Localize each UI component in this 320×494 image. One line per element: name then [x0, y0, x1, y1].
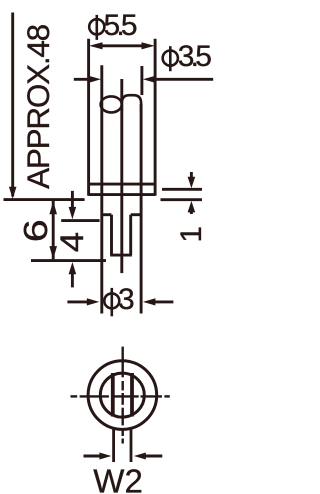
- bottom view: right pin (end-on): [130, 373, 134, 417]
- leader: phi3.5 left arrow: [74, 78, 91, 81]
- dimension line: phi5.5 across top: [96, 44, 148, 47]
- leader: phi3.5 right arrow: [152, 78, 213, 81]
- bottom view: left lead below flange: [112, 429, 115, 462]
- body outline: outer cylinder left edge (phi5.5): [87, 39, 90, 196]
- arrowhead: phi3 left pointing right: [87, 298, 100, 305]
- wire: center lead through body: [120, 79, 123, 273]
- centerline: vertical (dash-dot): [121, 347, 123, 444]
- arrowhead: phi5.5 left, pointing left: [89, 42, 102, 49]
- svg-text:6: 6: [17, 219, 54, 242]
- body outline: flange seam (top edge of base): [89, 183, 156, 186]
- body outline: outer cylinder right edge (phi5.5): [154, 39, 157, 196]
- arrowhead: W2 right pointing left: [134, 453, 146, 460]
- arrowhead: 4mm bottom arrow pointing up, with stem: [69, 262, 77, 274]
- bottom view: inner circle (body): [100, 373, 144, 417]
- arrowhead: 1mm upper arrow pointing down: [190, 172, 193, 178]
- bottom view: left pin (end-on): [111, 373, 115, 417]
- body outline: narrow stem right edge: [129, 215, 132, 255]
- body outline: step shoulder below neck: [102, 213, 112, 216]
- arrowhead: 6mm top pointing up: [49, 201, 57, 214]
- arrowhead: 6mm bottom pointing down: [49, 246, 57, 259]
- arrowhead: phi3.5 left, pointing right: [89, 76, 102, 83]
- svg-text:APPROX.48: APPROX.48: [20, 24, 56, 189]
- node: reference line at base of body (left side): [4, 198, 85, 201]
- centerline: horizontal (dash-dot): [71, 395, 170, 397]
- arrowhead: 1mm lower arrow pointing up: [188, 201, 196, 213]
- svg-text:3.5: 3.5: [178, 40, 211, 73]
- leader: W2 right arrow: [143, 455, 162, 458]
- body outline: flange bottom edge: [89, 193, 156, 196]
- node: tick lines for 1mm base thickness (right side): [162, 188, 202, 191]
- svg-text:4: 4: [55, 232, 91, 252]
- svg-text:1: 1: [175, 226, 208, 242]
- leader: W2 left arrow: [84, 455, 103, 458]
- body outline: stem bottom cap: [110, 254, 132, 257]
- node: lower reference line (bottom of 6mm / 4mm): [31, 259, 106, 262]
- arrowhead: W2 left pointing right: [99, 453, 111, 460]
- arrowhead: phi3 right pointing left: [143, 298, 156, 305]
- svg-text:3: 3: [118, 283, 134, 316]
- bottom view: outer circle (flange): [88, 361, 157, 430]
- arrowhead: APPROX.48 dimension, pointing down: [9, 187, 17, 199]
- leader: phi3 left arrow: [67, 300, 90, 303]
- body outline: inner tube left edge (phi3.5 / phi3 extension): [100, 65, 103, 313]
- svg-text:5.5: 5.5: [104, 9, 137, 42]
- element: wire loop arch at tube top: [122, 95, 141, 111]
- node: tick line for 4mm (upper): [61, 219, 99, 222]
- leader: phi3 right arrow: [152, 300, 173, 303]
- body outline: inner tube right edge stub (phi3.5): [140, 66, 143, 95]
- body outline: narrow stem left edge: [110, 215, 113, 255]
- arrowhead: phi5.5 right, pointing right: [142, 42, 155, 49]
- label: phi symbol of phi5.5: [89, 15, 104, 40]
- dimension line: 6mm with arrows both ends: [52, 201, 55, 259]
- bottom view: right lead below flange: [130, 429, 133, 462]
- label: phi symbol of phi3.5: [163, 46, 178, 71]
- element: sensing bead (ellipse) at tube top: [101, 96, 122, 112]
- arrowhead: phi3.5 right, pointing left: [143, 76, 156, 83]
- label: phi symbol of phi3: [104, 288, 119, 316]
- svg-text:W2: W2: [93, 463, 143, 494]
- arrowhead: 4mm top arrow pointing down, with stem: [71, 191, 74, 207]
- wire: overall-length dimension line (APPROX.48): [11, 13, 14, 197]
- body outline: inner tube right edge / phi3 extension: [140, 104, 143, 314]
